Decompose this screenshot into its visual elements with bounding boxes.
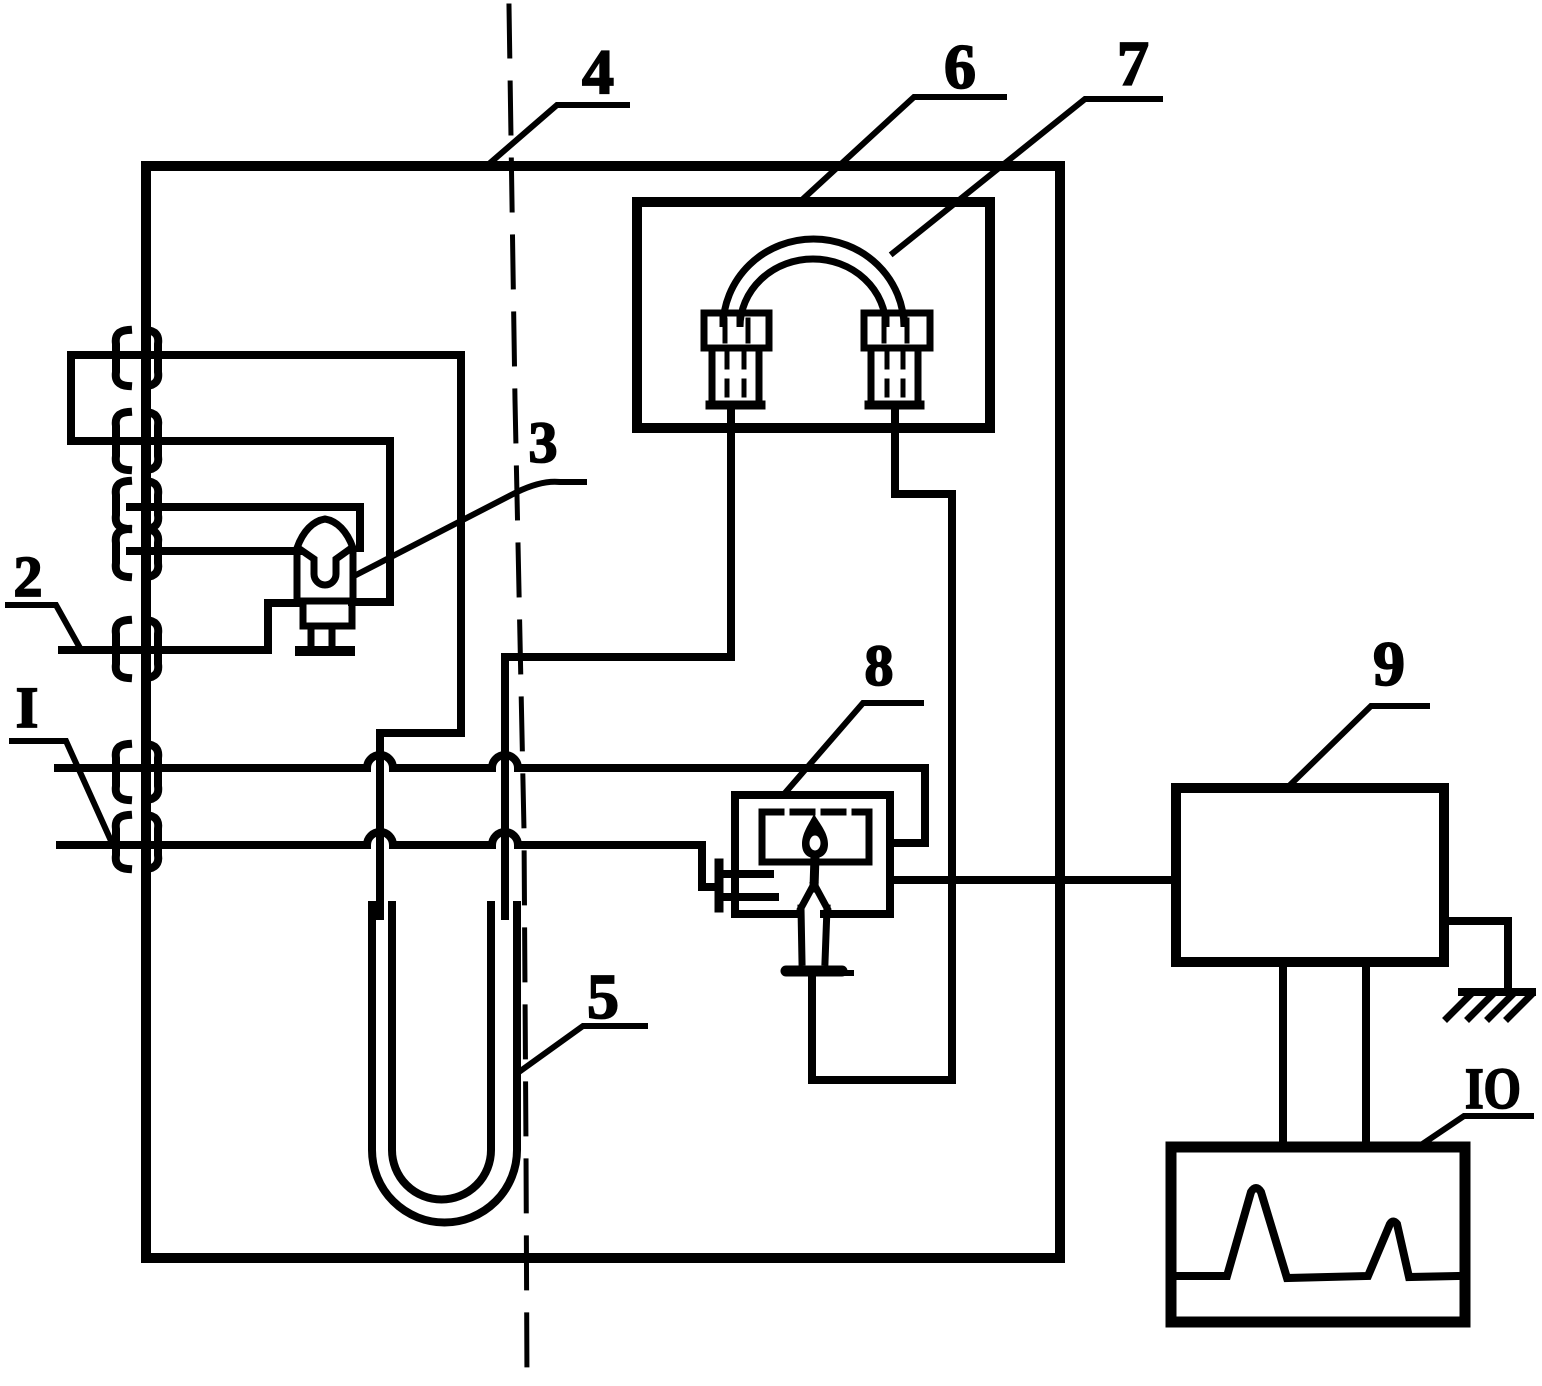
ground tap wire: [1444, 921, 1508, 990]
wall seal bracket pair y772: [116, 744, 159, 800]
recorder wires: [1283, 962, 1366, 1147]
valve 3 inner keyhole: [301, 549, 350, 585]
chromatogram trace: [1176, 1188, 1460, 1278]
ground bar: [1462, 988, 1532, 996]
injector oven box 6: [637, 202, 990, 428]
wall seal bracket pair y553: [116, 529, 159, 577]
label 6 leader: [803, 97, 1004, 199]
detector inner cell dashed top: [762, 809, 869, 816]
right fitting nut: [864, 313, 930, 348]
pipe line y507 to valve top: [130, 507, 360, 548]
burner needle walls: [801, 908, 827, 962]
signal output line: [890, 876, 1176, 884]
flame core hole: [810, 836, 821, 851]
left fitting barrel bottom cap: [710, 401, 761, 410]
dashed section centerline: [509, 6, 527, 1386]
label 5 leader: [519, 1026, 645, 1072]
svg-text:6: 6: [944, 31, 976, 102]
carrier feed pipe to U-tube left arm: [380, 355, 461, 916]
pipe from right fitting down to syringe loop: [812, 408, 952, 1080]
wall seal bracket pair y441: [116, 412, 159, 470]
valve 3 body outline: [297, 519, 353, 601]
flame detector 8 outer box: [735, 795, 890, 914]
svg-text:4: 4: [582, 36, 614, 107]
label 4 leader: [490, 105, 627, 163]
pipe from left fitting to U-tube right arm: [505, 408, 731, 916]
pipe line y551 to valve left: [130, 547, 298, 555]
wall seal bracket pair y842: [116, 815, 159, 869]
pipe line y650 with step to valve bottom: [62, 603, 298, 650]
sample line y845 with hops: [60, 832, 716, 887]
left fitting thread dashes: [727, 353, 744, 400]
svg-text:2: 2: [14, 544, 43, 609]
ground hatches: [1447, 995, 1531, 1018]
valve 3 base plate: [300, 646, 350, 656]
pipe loop A outside wall top line: [71, 355, 461, 441]
U-tube 5 inner wall: [392, 905, 491, 1200]
svg-text:IO: IO: [1465, 1056, 1521, 1121]
label I leader: [12, 741, 112, 843]
column tube arch 7 inner wall: [740, 259, 886, 327]
svg-text:8: 8: [865, 633, 894, 698]
label 7 leader: [893, 99, 1160, 253]
right fitting barrel: [871, 348, 918, 406]
label 9 leader: [1289, 706, 1427, 786]
pipe loop A bottom line to valve: [71, 441, 390, 602]
left fitting nut ticks: [725, 320, 748, 341]
left fitting nut: [704, 313, 769, 348]
label 3 leader: [356, 482, 584, 575]
wall seal bracket pair y649: [116, 620, 159, 678]
svg-text:5: 5: [587, 961, 619, 1032]
right fitting thread dashes: [887, 353, 903, 400]
label 2 leader: [8, 605, 80, 648]
wall seal bracket pair y505: [116, 481, 159, 529]
burner flange tick: [842, 970, 851, 976]
wall seal bracket pair y358: [116, 330, 159, 386]
flame teardrop: [802, 814, 828, 858]
svg-text:9: 9: [1373, 628, 1405, 699]
burner stem: [814, 856, 815, 888]
right fitting barrel bottom cap: [869, 401, 920, 410]
detector inner cell box: [762, 812, 869, 862]
label 8 leader: [785, 703, 921, 793]
detector inlet connector bars: [715, 863, 724, 908]
svg-text:I: I: [16, 675, 39, 740]
valve 3 stem: [311, 626, 332, 648]
recorder box 10: [1171, 1147, 1465, 1322]
left fitting barrel: [712, 348, 759, 406]
column tube arch 7 outer wall: [723, 239, 904, 327]
svg-text:3: 3: [529, 410, 558, 475]
burner nozzle flare: [801, 884, 827, 908]
burner flange: [786, 966, 842, 977]
right fitting nut ticks: [884, 320, 907, 341]
label 10 leader: [1418, 1116, 1531, 1147]
U-tube 5 outer wall: [372, 905, 517, 1223]
enclosure box 4 outline: [146, 166, 1060, 1258]
svg-text:7: 7: [1117, 28, 1149, 99]
valve 3 lower block: [303, 601, 352, 626]
amplifier box 9: [1176, 788, 1444, 962]
sample line y768 with hops: [58, 755, 925, 843]
